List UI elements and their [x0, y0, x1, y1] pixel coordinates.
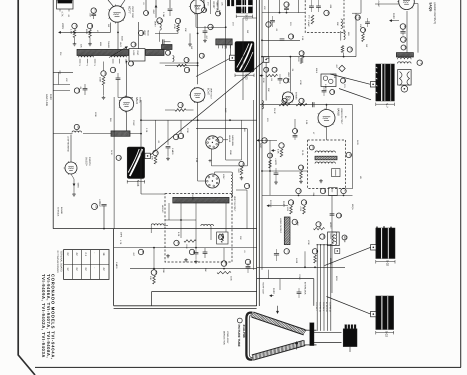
callout C94: [138, 30, 143, 35]
resistor R27: [362, 34, 365, 42]
callout C39: [355, 15, 360, 20]
svg-text:TO RF UNIT: TO RF UNIT: [261, 282, 264, 295]
callout C16: [110, 67, 115, 72]
sound takeoff coil: [344, 31, 346, 40]
wire y565: [262, 56, 356, 58]
wire x247 low: [246, 190, 248, 229]
resistor R2: [89, 30, 92, 38]
wire y1886: [346, 188, 353, 190]
wire y1047: [260, 104, 353, 106]
tuner coil bar right (hatched): [146, 49, 165, 55]
wire x114: [113, 97, 115, 229]
resistor R16: [303, 206, 306, 214]
leader wire from flyback square: [325, 247, 371, 265]
svg-text:AGC LINE: AGC LINE: [45, 94, 48, 106]
lowbox v2: [223, 248, 225, 261]
callout C61: [312, 249, 317, 254]
right page edge line: [460, 0, 462, 367]
wire x363: [362, 13, 364, 30]
svg-text:TO PIN 10: TO PIN 10: [318, 302, 321, 313]
svg-text:150K: 150K: [229, 150, 232, 155]
tube V2: [119, 97, 133, 111]
resistor R3: [154, 156, 157, 164]
cap C35: [316, 5, 321, 7]
svg-text:315V: 315V: [224, 44, 227, 50]
CRT ion trap arrow: [296, 342, 298, 350]
coil taps left: [79, 59, 81, 64]
svg-text:21.25: 21.25: [301, 150, 304, 156]
callout C83: [342, 235, 347, 240]
flyback transformer block: [376, 228, 395, 259]
wire bottom inset: [268, 270, 270, 279]
svg-text:.0047: .0047: [152, 9, 155, 15]
wire stub: [74, 38, 76, 43]
svg-text:100K: 100K: [162, 268, 165, 273]
callout square B: [145, 153, 150, 158]
callout C71: [166, 50, 171, 55]
svg-text:1.5K: 1.5K: [301, 36, 304, 41]
callout C54: [288, 200, 293, 205]
svg-text:6CY7: 6CY7: [128, 6, 132, 14]
resistor R14: [280, 149, 283, 157]
top stub 3: [203, 0, 205, 7]
svg-text:270K: 270K: [262, 78, 265, 83]
diamond mark: [339, 65, 345, 71]
sound coil: [341, 19, 343, 29]
callout C77: [293, 129, 298, 134]
agc box top: [196, 128, 247, 130]
cap C59: [274, 253, 279, 255]
svg-text:6CM7: 6CM7: [206, 88, 209, 95]
resistor R23: [300, 171, 303, 179]
picture tube V4 (small): [65, 162, 77, 174]
svg-text:VIDEO OUTPUT: VIDEO OUTPUT: [340, 108, 343, 125]
svg-text:TO PIN 12: TO PIN 12: [329, 302, 332, 313]
width box: [328, 232, 340, 246]
wire x243: [242, 18, 244, 100]
wire yoke top ticks: [218, 45, 220, 48]
IF can dashed box: [308, 140, 346, 189]
svg-text:AGC: AGC: [224, 108, 227, 113]
top stub 4: [210, 0, 212, 14]
leader wire from square A: [196, 59, 230, 77]
wire x3525: [352, 105, 354, 189]
resistor R5: [102, 77, 105, 85]
svg-text:8.2K: 8.2K: [277, 149, 280, 154]
svg-text:5AQ5: 5AQ5: [428, 3, 432, 12]
callout square flyback: [371, 245, 376, 250]
deflection yoke block: [376, 296, 394, 330]
wire x181: [180, 120, 182, 133]
wire IF right: [345, 154, 348, 156]
IF coil primary: [315, 151, 335, 153]
callout C3: [87, 23, 92, 28]
cap C41: [400, 31, 405, 33]
svg-text:223V: 223V: [61, 23, 64, 29]
svg-text:-: -: [93, 252, 96, 253]
CRT heater wire top: [314, 331, 342, 333]
wire x270 mid: [269, 140, 271, 195]
svg-text:4.7K: 4.7K: [61, 12, 64, 17]
lower double rule: [114, 305, 257, 307]
inset ground 1: [167, 254, 169, 256]
callout C56: [292, 219, 297, 224]
wire audio v: [406, 11, 408, 53]
wire V7 anode: [197, 14, 199, 85]
IF core (hatched): [315, 156, 337, 160]
wire y72 stub: [53, 71, 73, 73]
callout C73: [199, 53, 204, 58]
resistor R25: [300, 58, 303, 64]
svg-text:DEFLECTION: DEFLECTION: [223, 331, 226, 345]
callout C15: [101, 71, 106, 76]
wire y194 bus: [141, 193, 165, 195]
wire audio v2: [414, 3, 419, 5]
cap C23: [101, 204, 106, 206]
inset v-wire 1: [168, 203, 170, 220]
callout C45: [299, 98, 304, 103]
inset resistor R6: [184, 240, 196, 243]
inset v-wire 4: [210, 226, 212, 240]
svg-text:140V: 140V: [356, 140, 359, 145]
ringing coil: [173, 56, 175, 62]
svg-text:5-CB: 5-CB: [191, 195, 194, 201]
callout C9: [178, 133, 183, 138]
svg-text:VERT MULT: VERT MULT: [287, 72, 290, 84]
wire V4 up: [70, 135, 72, 163]
svg-text:4.5 MC: 4.5 MC: [307, 20, 310, 27]
audio xfmr secondary: [398, 62, 412, 64]
svg-text:OSC: OSC: [136, 51, 139, 56]
svg-text:1 MEG: 1 MEG: [171, 148, 174, 155]
svg-text:UNIT: UNIT: [119, 42, 122, 47]
svg-text:HOLD: HOLD: [147, 30, 150, 36]
lowbox cap2: [194, 252, 199, 254]
svg-text:(AUDIO OUTPUT): (AUDIO OUTPUT): [433, 3, 436, 24]
sound IF dashed box: [305, 0, 344, 33]
picture tube label: [237, 318, 242, 323]
center fold double rule: [256, 0, 258, 306]
resistor R11: [341, 46, 344, 53]
wire diagonal to T1 area: [339, 89, 371, 100]
callout C72: [184, 58, 189, 63]
agc box bottom: [212, 165, 248, 167]
callout C4: [131, 42, 136, 47]
callout C85: [299, 51, 304, 56]
lower inset box left border: [113, 229, 115, 306]
svg-text:470K: 470K: [173, 24, 176, 29]
wire y403: [262, 39, 300, 41]
svg-text:5-02: 5-02: [385, 331, 389, 337]
svg-text:115V: 115V: [49, 94, 52, 100]
tuner box: [129, 49, 145, 61]
svg-text:100K: 100K: [185, 244, 188, 249]
wire y190b: [236, 189, 247, 191]
power transformer T1: [376, 64, 395, 101]
tube V1 vert osc: [109, 6, 125, 22]
svg-text:10AVP4: 10AVP4: [88, 157, 91, 166]
wire S2 to coil: [215, 171, 232, 173]
dimension bracket 5-02 (flyback): [375, 260, 377, 263]
svg-text:AY NET: AY NET: [377, 1, 380, 8]
wire speaker: [403, 84, 405, 87]
+140V arrow: [272, 150, 276, 152]
yoke coil (hatched): [216, 39, 232, 45]
svg-text:1B3GT: 1B3GT: [329, 258, 332, 265]
bottom page edge line: [35, 366, 461, 368]
wire y845 left: [53, 84, 70, 86]
voltage feed 223V: [59, 31, 64, 33]
svg-text:120K: 120K: [94, 112, 97, 117]
inset cap: [203, 251, 208, 253]
wire HV link: [332, 231, 335, 233]
resistor R10: [311, 15, 314, 24]
svg-text:+140V: +140V: [274, 158, 277, 165]
tube socket S2: [205, 174, 219, 188]
svg-text:HORIZ OUTPUT: HORIZ OUTPUT: [279, 218, 282, 234]
wire V2 up: [126, 62, 128, 97]
callout C8: [173, 134, 178, 139]
wire x356: [355, 13, 357, 56]
audio tube V5: [399, 0, 415, 10]
AGC arrow: [257, 139, 261, 141]
svg-text:KRK: KRK: [99, 42, 102, 47]
left schematic border: [52, 0, 54, 229]
wire sound coil: [340, 31, 342, 41]
terminal board table: [64, 250, 109, 280]
svg-text:115V: 115V: [282, 201, 285, 207]
resistor R8: [217, 271, 231, 273]
callout C7: [153, 150, 158, 155]
svg-text:470K: 470K: [299, 80, 302, 85]
wire bus y32: [64, 31, 111, 33]
cap C76: [274, 172, 279, 174]
inner corner line: [152, 291, 257, 293]
wire y63: [160, 62, 198, 64]
HV cap: [330, 213, 335, 215]
svg-text:680K: 680K: [85, 29, 88, 35]
svg-text:1E: 1E: [102, 252, 105, 255]
top stub 2: [169, 0, 171, 8]
picture tube face: [246, 313, 252, 360]
wire x104: [103, 206, 105, 229]
callout C51: [296, 188, 301, 193]
callout C50: [346, 152, 351, 157]
svg-text:10 MF REVERSE: 10 MF REVERSE: [67, 136, 70, 152]
picture tube lower flank (hatched): [253, 346, 305, 361]
svg-text:RF TRANSFORMER: RF TRANSFORMER: [56, 251, 59, 274]
audio xfmr primary: [398, 58, 412, 60]
inset coil 2: [201, 224, 214, 226]
leader wire from T1 square: [330, 74, 370, 84]
dimension bracket 5-02 (yoke): [375, 331, 377, 334]
callout C91: [116, 155, 121, 160]
lowbox v1: [153, 248, 155, 270]
callout C2: [72, 23, 77, 28]
svg-text:4V: 4V: [102, 267, 105, 270]
svg-text:39K: 39K: [336, 22, 339, 26]
speaker frame: [398, 70, 411, 86]
wire y334: [155, 32, 178, 34]
svg-text:47K: 47K: [151, 156, 154, 160]
wire x196 top: [195, 0, 197, 27]
plus mark: [209, 160, 212, 162]
svg-text:AGC: AGC: [259, 143, 262, 148]
wire y27: [196, 26, 226, 28]
CRT heater wire bottom: [314, 342, 342, 344]
svg-text:1V: 1V: [66, 267, 69, 270]
callout C47: [262, 138, 267, 143]
svg-text:-: -: [93, 267, 96, 268]
HV square: [335, 249, 340, 254]
capacitor C1: [91, 13, 96, 15]
resistor R20: [177, 25, 180, 32]
svg-text:2.1: 2.1: [84, 252, 87, 256]
wire x168: [167, 120, 169, 145]
callout C5: [157, 18, 163, 24]
wire y90 stub: [53, 90, 70, 92]
callout square T1: [370, 82, 375, 87]
svg-text:VERT OSC: VERT OSC: [131, 6, 134, 18]
callout C36: [324, 10, 329, 15]
svg-text:W TRANS: W TRANS: [57, 207, 60, 217]
svg-text:TUNER: TUNER: [107, 41, 110, 48]
tube V7 vert amp: [190, 0, 204, 14]
svg-text:56K: 56K: [296, 222, 299, 226]
wire V3 down 2: [197, 120, 199, 181]
wire x332: [331, 196, 333, 293]
callout C18: [129, 61, 134, 66]
callout C87: [272, 67, 277, 72]
cap C38: [280, 38, 285, 40]
wire V3 down: [197, 102, 199, 120]
callout C82: [336, 213, 341, 218]
callout C57: [316, 222, 321, 227]
inset h-wire y220: [165, 219, 196, 221]
cap C46: [312, 102, 314, 107]
callout C27: [245, 259, 250, 264]
callout C88: [341, 78, 346, 83]
ground R2: [89, 38, 91, 43]
wire x585: [58, 72, 60, 84]
inset v-wire 5: [225, 203, 227, 232]
tube V8 sync sep: [282, 92, 293, 103]
callout C80: [239, 161, 244, 166]
115V feed bottom: [270, 295, 274, 297]
wire y195 bus: [262, 194, 353, 196]
svg-text:INTERLOCK: INTERLOCK: [303, 282, 306, 295]
IF coil bar (hatched): [111, 131, 130, 136]
speaker voice coil: [401, 86, 408, 93]
wire tube V1 down: [110, 23, 112, 33]
svg-text:10K: 10K: [184, 28, 187, 32]
agc box right: [246, 129, 248, 166]
wire x2795: [279, 0, 281, 13]
callout C25: [221, 261, 227, 267]
svg-text:33K: 33K: [267, 88, 270, 92]
svg-text:SYNC: SYNC: [132, 120, 135, 126]
svg-text:YOKE ASSY: YOKE ASSY: [226, 331, 229, 344]
resistor R18: [314, 255, 317, 263]
wire y132 right: [352, 12, 361, 14]
top stub 1: [145, 0, 147, 10]
cap C33: [284, 7, 289, 9]
cap C89: [322, 90, 327, 92]
wire y1404: [262, 139, 278, 141]
IF trimmer box: [332, 169, 340, 177]
callout square A: [230, 55, 235, 60]
svg-text:VERT OUT: VERT OUT: [210, 88, 213, 100]
top stub 5: [217, 0, 219, 10]
wire x2535: [253, 100, 255, 270]
svg-text:TO PIN 1: TO PIN 1: [322, 302, 325, 311]
wire x1557: [155, 120, 157, 150]
callout C26: [138, 249, 143, 254]
svg-text:3V: 3V: [66, 252, 69, 255]
tube V1 top lead: [108, 0, 114, 7]
svg-text:TO PIN 2: TO PIN 2: [315, 302, 318, 311]
svg-text:R8: R8: [333, 76, 336, 78]
wire y110: [165, 109, 175, 111]
svg-text:BOARD: BOARD: [60, 207, 63, 215]
callout C11: [208, 24, 213, 29]
tube socket S1: [206, 136, 219, 149]
dimension bracket 5-C8 (bell B): [126, 180, 128, 183]
wire x190 stub: [189, 33, 191, 42]
coil secondary right: [112, 56, 127, 57]
callout C86: [264, 67, 269, 72]
wire x305: [304, 251, 306, 267]
vert out coil tall: [231, 172, 233, 198]
svg-text:2AF4: 2AF4: [120, 232, 123, 238]
cap C93: [365, 21, 370, 23]
wire V6 down: [326, 127, 328, 141]
wire x290 down: [289, 57, 291, 92]
IF ground: [320, 179, 322, 181]
inset coil bar (hatched): [173, 197, 229, 203]
svg-text:4.7K: 4.7K: [119, 240, 122, 245]
left page edge line: [18, 0, 35, 375]
wire y160 link: [226, 159, 242, 161]
cap C34: [309, 5, 314, 7]
resistor R12: [279, 104, 290, 106]
svg-text:FOCUS: FOCUS: [269, 200, 272, 208]
callout C84: [401, 45, 406, 50]
callout C40: [400, 24, 406, 30]
callout C42: [401, 37, 407, 43]
svg-text:TERMINAL BOARD: TERMINAL BOARD: [60, 251, 63, 272]
svg-text:8.2K: 8.2K: [177, 232, 180, 237]
svg-text:YOKE: YOKE: [298, 274, 301, 280]
ant terminal marks: [227, 0, 230, 6]
tube V3 vert out: [190, 88, 205, 103]
svg-text:100K: 100K: [99, 77, 102, 83]
wire x262: [261, 0, 263, 270]
arrow feed: [260, 75, 264, 77]
horiz out transformer bar (hatched): [284, 217, 290, 245]
CRT socket plug (checkered): [236, 0, 252, 13]
svg-text:5-C8: 5-C8: [136, 180, 140, 187]
callout C58: [320, 234, 325, 239]
HV coil: [335, 232, 337, 245]
callout C32: [284, 2, 289, 7]
svg-text:TVI-9409A, TVI-9402A, TVI-9403: TVI-9409A, TVI-9402A, TVI-9403A: [41, 274, 46, 358]
CRT anode arrow: [277, 306, 279, 314]
wire y171: [262, 170, 308, 172]
cap C28: [246, 266, 251, 268]
inset ground 2: [185, 258, 187, 260]
svg-text:B+ BOOST: B+ BOOST: [325, 302, 328, 313]
